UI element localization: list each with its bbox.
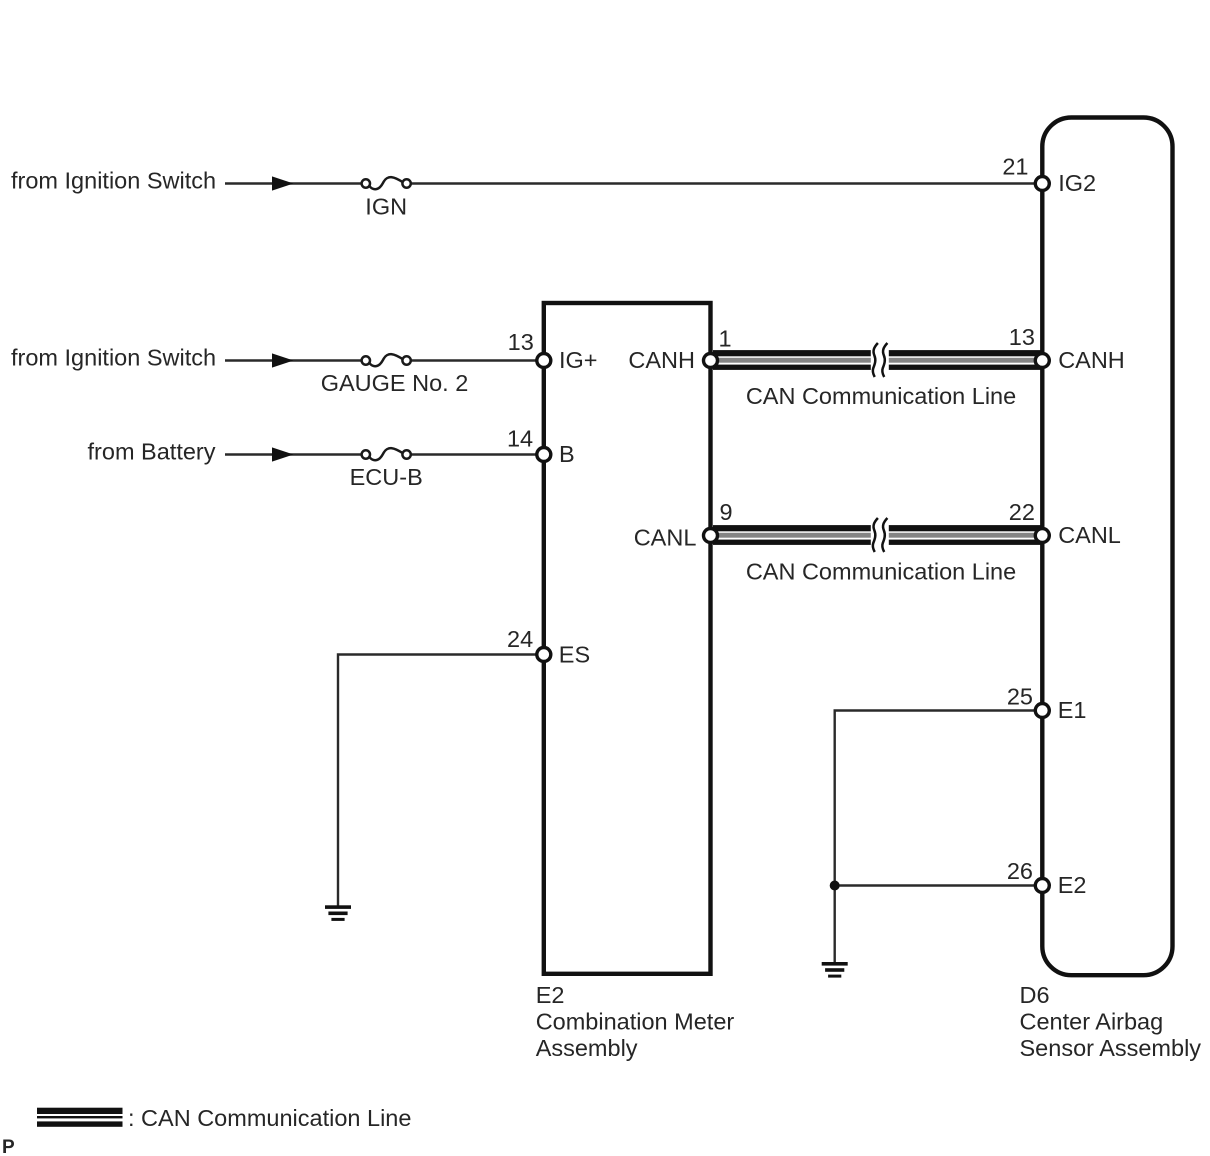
svg-text:Center Airbag: Center Airbag [1020, 1009, 1164, 1035]
svg-text:21: 21 [1002, 153, 1028, 179]
svg-text:: CAN Communication Line: : CAN Communication Line [128, 1105, 411, 1131]
svg-text:Sensor Assembly: Sensor Assembly [1020, 1035, 1202, 1061]
svg-text:9: 9 [720, 499, 733, 525]
svg-text:GAUGE No. 2: GAUGE No. 2 [321, 370, 469, 396]
svg-text:Assembly: Assembly [536, 1035, 638, 1061]
svg-text:CANL: CANL [1058, 522, 1121, 548]
svg-text:Combination Meter: Combination Meter [536, 1009, 735, 1035]
svg-text:1: 1 [719, 326, 732, 352]
svg-text:from Battery: from Battery [88, 439, 216, 465]
svg-text:P: P [2, 1137, 15, 1156]
svg-text:from Ignition Switch: from Ignition Switch [11, 345, 216, 371]
svg-text:13: 13 [508, 329, 534, 355]
svg-text:IG+: IG+ [559, 347, 598, 373]
svg-text:24: 24 [507, 626, 533, 652]
svg-text:B: B [559, 441, 575, 467]
svg-text:D6: D6 [1020, 982, 1050, 1008]
svg-text:from Ignition Switch: from Ignition Switch [11, 168, 216, 194]
svg-text:IG2: IG2 [1058, 170, 1096, 196]
svg-text:13: 13 [1009, 324, 1035, 350]
svg-text:E2: E2 [1058, 872, 1087, 898]
svg-text:CAN Communication Line: CAN Communication Line [746, 383, 1016, 409]
svg-text:E1: E1 [1058, 697, 1087, 723]
svg-text:E2: E2 [536, 982, 565, 1008]
svg-text:CAN Communication Line: CAN Communication Line [746, 559, 1016, 585]
svg-text:IGN: IGN [365, 194, 407, 220]
svg-text:25: 25 [1007, 683, 1033, 709]
svg-text:CANH: CANH [628, 347, 695, 373]
svg-text:CANL: CANL [634, 524, 697, 550]
svg-text:ES: ES [559, 641, 590, 667]
svg-text:26: 26 [1007, 858, 1033, 884]
svg-text:CANH: CANH [1058, 347, 1125, 373]
svg-text:14: 14 [507, 426, 533, 452]
svg-text:ECU-B: ECU-B [350, 464, 423, 490]
svg-text:22: 22 [1009, 499, 1035, 525]
